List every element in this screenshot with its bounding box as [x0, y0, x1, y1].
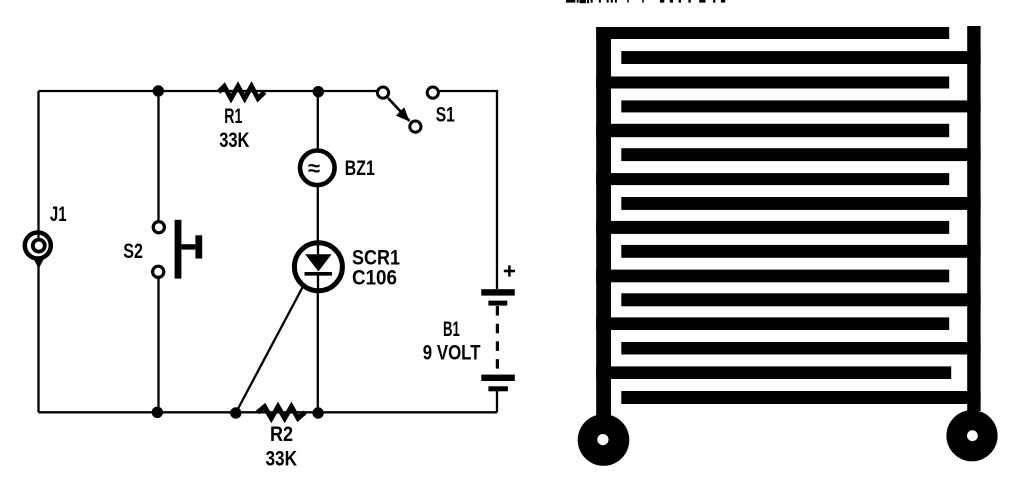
- wire left J1 upper: [37, 91, 39, 239]
- grid finger 15 left: [596, 366, 951, 379]
- resistor R2: [258, 407, 305, 419]
- battery B1 plate short bottom: [488, 386, 508, 391]
- wire left J1 lower: [37, 259, 39, 412]
- svg-text:R1: R1: [224, 104, 242, 128]
- battery B1 dashed middle: [496, 306, 499, 374]
- svg-text:B1: B1: [443, 317, 460, 341]
- switch S2 cap: [195, 235, 202, 258]
- switch S2 contact bottom: [153, 266, 164, 277]
- svg-text:S2: S2: [123, 239, 143, 263]
- grid finger 10 right: [621, 245, 980, 258]
- wire BZ1 to SCR1 and cathode down to bottom rail: [317, 186, 319, 413]
- node junction top-S2: [153, 85, 164, 96]
- grid finger 1 left: [596, 27, 949, 39]
- svg-text:BZ1: BZ1: [345, 156, 375, 180]
- connector J1: [25, 233, 51, 259]
- switch S1 contact left: [377, 87, 388, 98]
- svg-text:9 VOLT: 9 VOLT: [423, 341, 481, 365]
- SCR1 cathode wire inside: [317, 274, 319, 291]
- svg-text:33K: 33K: [219, 128, 250, 152]
- SCR1 triangle: [305, 254, 331, 271]
- grid finger 3 left: [596, 77, 949, 89]
- wire BZ1 branch upper: [317, 91, 319, 151]
- grid finger 9 left: [596, 221, 949, 234]
- grid finger 8 right: [621, 197, 980, 210]
- grid right bus bar: [967, 26, 980, 411]
- switch S2 contact top: [153, 222, 164, 233]
- grid right pad: [946, 410, 997, 461]
- SCR1 cathode bar: [305, 272, 333, 276]
- svg-text:≈: ≈: [308, 156, 320, 181]
- grid finger 12 right: [621, 293, 980, 306]
- grid finger 5 left: [596, 124, 949, 137]
- battery B1 plus sign: [504, 265, 515, 276]
- SCR1 body circle: [294, 243, 342, 291]
- battery B1 plate long top: [481, 289, 515, 295]
- SCR1 anode wire inside: [317, 242, 319, 256]
- connector J1 bottom tip: [33, 259, 44, 269]
- buzzer BZ1: [300, 151, 335, 186]
- clipped caption text remnants at top: [566, 0, 725, 3]
- grid finger 16 right: [621, 391, 980, 404]
- switch S2 stem: [181, 244, 195, 249]
- switch S1 contact right: [427, 87, 438, 98]
- svg-text:C106: C106: [352, 266, 397, 290]
- wire top right from S1 to corner: [440, 91, 498, 289]
- grid finger 11 left: [596, 270, 949, 283]
- grid finger 13 left: [596, 317, 949, 330]
- grid left pad: [578, 414, 630, 466]
- grid finger 7 left: [596, 173, 949, 185]
- svg-text:J1: J1: [50, 202, 67, 226]
- battery B1 plate long bottom: [481, 375, 515, 381]
- grid left bus bar: [596, 27, 611, 417]
- node junction bottom-SCR: [312, 407, 323, 418]
- svg-text:R2: R2: [270, 422, 293, 446]
- grid finger 2 right: [621, 51, 980, 64]
- wire bottom rail: [39, 411, 498, 413]
- grid right pad hole: [967, 430, 978, 441]
- wire top rail: [39, 90, 377, 92]
- switch S1 arm with arrowhead: [388, 98, 410, 122]
- battery B1 plate short top: [488, 301, 507, 306]
- switch S2 plunger bar: [175, 220, 182, 279]
- wire S2 branch lower: [157, 278, 159, 413]
- grid finger 6 right: [621, 148, 980, 161]
- grid left pad hole: [597, 434, 608, 445]
- node junction bottom-gate: [230, 407, 241, 418]
- grid finger 14 right: [621, 342, 980, 355]
- switch S1 pole contact: [410, 121, 421, 132]
- svg-text:33K: 33K: [266, 447, 298, 471]
- wire battery bottom to bottom rail: [496, 391, 498, 412]
- resistor R1: [219, 86, 265, 98]
- node junction bottom-S2: [152, 407, 163, 418]
- SCHEMATIC-LEFT: [39, 91, 498, 413]
- GRID-PATTERN-RIGHT: [596, 26, 980, 417]
- svg-text:S1: S1: [436, 103, 455, 127]
- wire S2 branch upper: [157, 91, 159, 222]
- wire SCR1 gate lead: [236, 277, 308, 413]
- node junction top-BZ1: [313, 86, 324, 97]
- grid finger 4 right: [621, 100, 980, 112]
